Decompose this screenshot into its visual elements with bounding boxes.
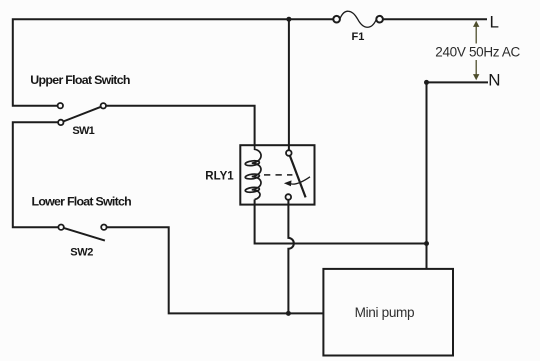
relay coil RLY1 [245,145,261,199]
junction dot: contact return meets pump wire [286,311,291,316]
relay dashed actuation line [264,174,292,176]
fuse F1 [333,11,383,27]
relay contact top pin [286,150,292,156]
junction dot: top rail / relay contact [286,17,291,22]
svg-text:SW1: SW1 [72,125,94,137]
Mini pump box [323,269,453,356]
svg-text:RLY1: RLY1 [205,171,234,183]
wire: SW2 output right, down, and bottom run into Mini pump [107,227,323,313]
junction dot: N rail corner [424,80,429,85]
switch SW1 (upper float switch) [58,103,106,125]
wire: N rail + right vertical down to Mini pump top [427,82,489,268]
wire: L rail right segment (fuse to L terminal) [383,18,487,20]
relay contact bottom pin [286,194,292,200]
arrow: 240V supply double-headed arrow [473,21,479,80]
label 240V 50Hz AC [435,44,521,61]
svg-text:Mini pump: Mini pump [355,305,415,320]
wire: SW1 output to relay coil top [106,106,255,146]
wire: relay contact top (from L rail junction down to contact) [288,19,290,150]
wire: relay contact bottom with hop over coil wire, down to pump wire junction [288,200,293,314]
relay contact lever [290,156,306,198]
svg-text:Lower Float Switch: Lower Float Switch [32,195,132,209]
svg-text:Upper Float Switch: Upper Float Switch [30,73,130,87]
svg-text:N: N [488,70,500,89]
svg-text:F1: F1 [352,31,365,43]
wire: L rail left segment + left vertical feed to SW1 upper contact [13,19,333,106]
relay action arrow [284,177,310,186]
wire: relay coil bottom down and right to right vertical junction [255,200,426,244]
switch SW2 (lower float switch) [58,225,106,241]
wire: SW1 lower contact feed + left vertical to SW2 left contact [13,122,59,227]
junction dot: coil return meets right vertical [424,241,429,246]
svg-text:240V 50Hz AC: 240V 50Hz AC [435,44,520,59]
svg-text:SW2: SW2 [70,246,93,258]
relay RLY1 box [240,145,314,204]
svg-text:L: L [490,13,499,32]
